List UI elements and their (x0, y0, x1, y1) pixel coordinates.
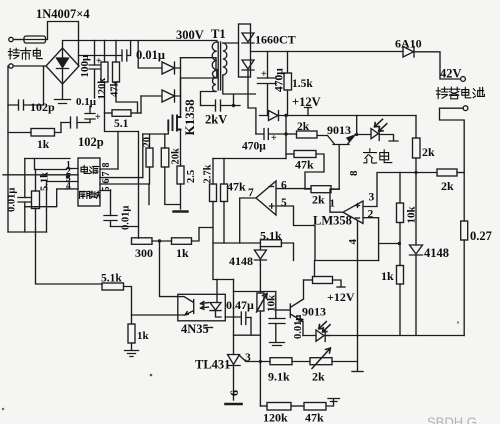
svg-text:4N35: 4N35 (181, 322, 209, 336)
svg-text:42V: 42V (440, 67, 462, 81)
wire 5.1k-h right to y243 (281, 243, 293, 261)
potentiometer 10k top lead (259, 265, 261, 293)
ground TL431 (226, 403, 242, 406)
ground below 2.5 (174, 210, 188, 212)
transistor 9013 #2 collector (290, 280, 303, 308)
wire 1k-ll to ground (131, 343, 133, 350)
LED charge indicator (371, 127, 379, 141)
speck 2 (457, 321, 459, 323)
wire 2.5 bottom to ground (180, 184, 182, 209)
label CJK char 电 (battery) (462, 87, 471, 97)
transistor 9013 #1 base bar (333, 144, 349, 146)
wire x138 down mid column (138, 132, 140, 239)
supply bar +12V #2 (337, 286, 345, 288)
potentiometer bottom lead (259, 311, 261, 362)
svg-text:470μ: 470μ (242, 141, 266, 153)
wire pin2 (363, 218, 379, 261)
svg-text:0.01μ: 0.01μ (293, 315, 304, 339)
svg-text:4: 4 (347, 239, 359, 245)
svg-text:47k: 47k (227, 180, 246, 194)
IC power module box (78, 158, 100, 206)
diode D-left-2 (141, 90, 181, 102)
potentiometer 2k arrow (312, 348, 331, 369)
ground below bridge (55, 84, 71, 104)
bridge rectifier 1N4007x4 diamond (46, 48, 79, 84)
junction dot emitter node (355, 133, 358, 136)
capacitor 0.01u lower plates (269, 319, 285, 324)
wire 47k-h tap (286, 153, 294, 155)
fuse F1 (24, 36, 46, 43)
potentiometer 2k bottom (310, 358, 332, 365)
diode 6A10 (403, 47, 414, 58)
wire 10k top (399, 173, 401, 204)
wire TL431 cathode bus y335 (234, 334, 261, 336)
wire left rail down (24, 159, 26, 233)
wire top rail 300V (63, 41, 213, 49)
resistor 1k mid (172, 238, 192, 245)
wire pin2 to divider node (379, 243, 400, 245)
svg-text:2: 2 (368, 209, 374, 221)
wire sense divider top y172.5 (457, 172, 464, 174)
wire pin4 (25, 189, 67, 207)
svg-text:8: 8 (348, 170, 360, 176)
svg-text:47k: 47k (110, 81, 121, 98)
wire 120k bottom to 5.1 line (104, 82, 106, 113)
resistor 20 vertical (149, 134, 151, 148)
svg-text:10k: 10k (266, 294, 278, 312)
svg-text:7: 7 (248, 187, 254, 199)
wire feedback winding bottom return (201, 92, 217, 106)
svg-text:20k: 20k (171, 148, 182, 165)
diode D3 on 12V rail (260, 111, 287, 121)
resistor 47k vertical top (115, 41, 117, 63)
wire battery - zigzag (440, 108, 465, 221)
svg-text:2kV: 2kV (205, 113, 227, 127)
resistor 2k vertical right (415, 116, 417, 139)
junction dot d3 (284, 114, 287, 117)
svg-text:+: + (95, 112, 101, 123)
speck 1 (150, 374, 153, 377)
junction dot 300/1k (158, 239, 161, 242)
resistor 5.1k horizontal (op1) (260, 240, 281, 247)
capacitor 100u lead (94, 41, 96, 66)
junction dot 2kV (232, 104, 235, 107)
svg-text:+: + (271, 133, 277, 144)
junction dot sense (414, 171, 417, 174)
potentiometer 10k (257, 293, 264, 311)
resistor 120k (260, 405, 267, 407)
ground symbol 1k-ll (125, 351, 139, 357)
resistor 0.27 vertical (461, 221, 468, 240)
svg-text:2k: 2k (441, 179, 454, 193)
resistor 20k vertical (164, 134, 166, 148)
svg-text:0.01μ: 0.01μ (121, 206, 132, 230)
speck 3 (2, 408, 4, 410)
svg-text:5: 5 (281, 197, 287, 209)
wire ground bus y335.5 (325, 335, 464, 337)
label CJK jie-xu-dian-chi (battery) char 接 (436, 87, 447, 98)
wire secondary top to 1660CT (223, 42, 239, 44)
wire 1k bottom to bus (399, 284, 401, 336)
svg-text:1k: 1k (37, 139, 50, 151)
terminal mains N (9, 64, 13, 68)
capacitor 0.1u electrolytic (85, 106, 95, 123)
svg-text:47k: 47k (305, 411, 324, 424)
svg-text:6A10: 6A10 (395, 37, 422, 51)
wire 0.01u to 300 resistor (111, 226, 139, 228)
label CJK char 蓄 (449, 87, 460, 99)
wire 5.1k-ll right jog (124, 287, 132, 316)
wire 102p to AC node (43, 66, 45, 105)
wire pin4 down (357, 221, 359, 372)
4N35 phototransistor (178, 297, 194, 315)
resistor 1.5k vertical (287, 52, 289, 74)
svg-text:3: 3 (245, 352, 251, 364)
label CJK module char 块 (94, 191, 100, 198)
label CJK module char 电 (81, 165, 89, 173)
opamp U1B triangle (343, 201, 363, 224)
wire TL431 top (233, 280, 235, 355)
resistor 10k vertical (397, 203, 404, 223)
svg-text:2.7k: 2.7k (203, 164, 214, 183)
svg-text:2k: 2k (312, 193, 325, 207)
LED #2 (316, 330, 325, 342)
junction dot fb chain (259, 360, 262, 363)
svg-text:2.5: 2.5 (186, 170, 197, 183)
terminal battery - (463, 106, 468, 111)
svg-text:1660CT: 1660CT (255, 33, 296, 47)
svg-text:5.1k: 5.1k (40, 172, 51, 191)
wire gate/drain rail (180, 58, 182, 114)
wire pin2 (3, 174, 67, 176)
resistor 120k vertical (104, 41, 106, 63)
svg-text:2k: 2k (422, 145, 435, 159)
svg-text:6: 6 (101, 179, 112, 184)
ground 0.01u lower (270, 343, 285, 346)
svg-text:4148: 4148 (229, 254, 253, 268)
svg-text:0.47μ: 0.47μ (226, 298, 254, 312)
opamp U1B minus (356, 217, 360, 219)
capacitor 2kV (201, 100, 221, 111)
wire primary top to rail (212, 41, 217, 43)
4N35 LED (210, 303, 221, 318)
wire K1358 source to 2.5 (180, 130, 182, 167)
left rail (7, 66, 9, 232)
label CJK char 电 (mains) (33, 48, 42, 58)
capacitor 470u #1 plates (258, 78, 277, 116)
svg-text:1N4007×4: 1N4007×4 (36, 7, 90, 21)
capacitor 0.47u (225, 312, 251, 325)
svg-text:300V: 300V (176, 28, 204, 42)
ground symbol pin4 (352, 371, 363, 373)
wire +12V rail (286, 115, 416, 117)
svg-text:0.1μ: 0.1μ (76, 96, 97, 108)
wire 1k right jog down (55, 123, 62, 133)
svg-text:1.5k: 1.5k (292, 78, 313, 90)
svg-text:102p: 102p (30, 100, 55, 114)
resistor 1k vertical lower-left (131, 315, 133, 324)
wire 5.1k bottom to bar (35, 209, 37, 233)
resistor 47k bottom (304, 403, 326, 411)
wire feedback chain drop (259, 362, 261, 407)
junction dot pin2 (66, 175, 69, 178)
wire pin8 riser (117, 132, 119, 170)
wire 300/1k node down to 4N35 collector (160, 241, 178, 297)
wire 20k bottom jog to ground (165, 167, 180, 205)
resistor 9.1k (270, 358, 292, 365)
capacitor 0.01u top (122, 41, 131, 62)
svg-text:0.01μ: 0.01μ (7, 188, 18, 212)
svg-text:SBDH G: SBDH G (427, 415, 477, 424)
diode 4148 #2 (410, 245, 423, 255)
wire bottom bar (8, 231, 47, 233)
svg-text:4148: 4148 (424, 246, 449, 260)
label CJK char 市 (21, 48, 31, 60)
svg-text:4: 4 (66, 181, 71, 191)
transistor 9013 #2 emitter (290, 314, 303, 336)
wire y158 right segment (213, 158, 286, 160)
capacitor 0.01u left plates (18, 198, 31, 203)
wire 10k bottom (399, 223, 401, 266)
svg-text:300: 300 (135, 246, 153, 260)
diode 4148 #1 (254, 247, 266, 265)
wire TL431 ref to 9.1k (246, 361, 270, 363)
wire emitter node to rail (355, 116, 371, 135)
wire 2k-v bottom to 4148#2 (415, 158, 417, 245)
wire mid horizontal y131.5 (105, 113, 139, 132)
wire 47k to ground hook (326, 399, 334, 406)
wire terminal to fuse (13, 39, 24, 41)
wire 6A10 to battery terminal (414, 52, 461, 79)
wire pin7 output (240, 198, 256, 243)
svg-text:+12V: +12V (327, 290, 355, 304)
wire node x286 down (285, 116, 287, 159)
transformer primary winding (212, 42, 217, 70)
svg-text:1k: 1k (137, 330, 150, 342)
module pin stubs right (100, 169, 149, 191)
svg-text:0.27: 0.27 (470, 229, 492, 243)
wire 0.47u right drop (250, 318, 252, 336)
svg-text:2k: 2k (312, 370, 325, 384)
wire pin6 (276, 188, 311, 190)
MOSFET K1358 (168, 116, 180, 131)
svg-text:K1358: K1358 (182, 99, 197, 136)
wire pin1 output loop (330, 189, 343, 212)
svg-text:5.1k: 5.1k (260, 229, 282, 243)
wire 47k-v top drop (223, 159, 225, 185)
resistor 1k vertical right (397, 266, 404, 285)
svg-text:6: 6 (227, 390, 241, 396)
wire LED cathode stub (379, 135, 398, 142)
wire op1 input bus y243 (213, 242, 260, 244)
opamp U1A minus (269, 186, 274, 188)
svg-text:2k: 2k (297, 121, 310, 133)
wire pin5 path (276, 206, 379, 261)
wire pin3 (47, 182, 67, 233)
wire 2kV right up to secondary return (221, 75, 256, 106)
wire pin6 drop to ground line (148, 184, 150, 205)
wire terminal N to bridge left vertex (13, 65, 46, 67)
resistor 2.7k vertical (210, 184, 217, 202)
svg-text:3: 3 (369, 192, 375, 204)
rectifier 1660CT box (239, 24, 251, 77)
ground hook bar (328, 399, 340, 402)
wire DC output rail y51.5 (251, 51, 404, 53)
label CJK char 电 (charging) (380, 150, 392, 163)
terminal mains L (9, 37, 13, 41)
wire 2k2 right riser (332, 145, 340, 189)
svg-text:0.01μ: 0.01μ (136, 48, 165, 62)
svg-text:8: 8 (101, 163, 112, 168)
resistor 1k horizontal left (8, 132, 31, 134)
wire 2.7k bottom / TL431 feed (213, 202, 234, 280)
svg-text:47k: 47k (295, 158, 314, 172)
svg-text:470μ: 470μ (274, 68, 286, 92)
LED #2 arrows (319, 322, 330, 332)
LED arrows (375, 119, 387, 131)
svg-text:120k: 120k (263, 411, 288, 424)
junction dot 470u2 (284, 132, 287, 135)
transistor 9013 #2 base bar (289, 304, 291, 318)
bridge internal diode (57, 50, 69, 82)
wire 20 bottom (149, 167, 151, 184)
capacitor 102p #2 (61, 117, 90, 128)
svg-text:9013: 9013 (327, 123, 351, 137)
wire 47k-v bottom (223, 202, 225, 244)
diode D-left-1 (138, 41, 180, 75)
wire base to transistor (276, 309, 290, 311)
svg-text:9.1k: 9.1k (268, 370, 290, 384)
resistor 300 (132, 238, 153, 245)
svg-text:LM358: LM358 (313, 214, 352, 228)
svg-text:1k: 1k (381, 269, 394, 283)
diode 1660CT lower (242, 60, 254, 94)
transistor 9013 #1 emitter (347, 135, 355, 144)
resistor 2k #1 (base) (286, 133, 297, 135)
opamp U1B plus (356, 204, 360, 208)
transformer T1 core (218, 42, 220, 90)
polarity dash 0.47u (205, 327, 213, 329)
wire TL431 anode down (233, 366, 235, 401)
4N35 coupling arrows (201, 302, 209, 310)
wire 0.27 bottom to bus (463, 240, 465, 336)
svg-text:5: 5 (101, 187, 112, 192)
svg-text:100μ: 100μ (79, 54, 91, 78)
TL431 symbol (227, 355, 246, 366)
label CJK chong-dian (charging) char 充 (364, 149, 377, 163)
svg-text:5.1k: 5.1k (101, 273, 122, 285)
wire 2.7k top drop (212, 159, 214, 185)
wire 4N35 input line (132, 314, 178, 316)
supply stub +12V (305, 108, 312, 116)
svg-text:1: 1 (330, 198, 336, 210)
opamp U1A triangle (256, 181, 276, 215)
resistor 5.1k horizontal lower-left (102, 283, 124, 290)
wire rail top to feedback winding (181, 58, 217, 69)
label CJK module char 膜 (87, 191, 93, 198)
resistor 2.5 vertical (177, 166, 184, 184)
svg-text:TL431: TL431 (195, 358, 230, 372)
capacitor 0.01u module plates (104, 216, 117, 227)
diode 1660CT upper (242, 33, 254, 43)
transformer secondary winding (223, 43, 227, 75)
svg-text:10k: 10k (406, 206, 418, 224)
resistor 47k horizontal (294, 151, 316, 158)
wire 4N35 LED top feed (216, 280, 218, 303)
capacitor 102p #1 (8, 100, 44, 110)
resistor 47k vertical mid (221, 184, 228, 202)
transistor 9013 #1 collector (317, 136, 334, 144)
wire 5.1 to diode2 line (140, 96, 142, 113)
module pin stubs left (67, 169, 79, 189)
resistor 2k horizontal sense (437, 169, 457, 176)
optocoupler 4N35 box (178, 294, 226, 321)
wire base feed 9013#2 (234, 292, 276, 311)
svg-text:7: 7 (101, 172, 112, 177)
wire pin1 branch (35, 159, 67, 170)
wire pin3 (363, 173, 437, 207)
wire pin5 to 0.01u (110, 190, 112, 216)
capacitor 100u plates (89, 65, 100, 98)
wire pin2 fb horizontal (314, 261, 316, 277)
svg-text:9013: 9013 (302, 305, 326, 319)
wire K1358 drain up (181, 70, 217, 117)
svg-text:+12V: +12V (292, 95, 321, 109)
wire pin7 riser to gate bus (142, 134, 144, 178)
wire LED2 anode (303, 335, 330, 337)
label CJK module char 源 (90, 166, 99, 173)
wire 2k-pot to pin4 line (332, 361, 358, 363)
capacitor 470u #1 leads (267, 52, 269, 79)
resistor 5.1 horizontal (105, 112, 113, 114)
svg-text:102p: 102p (78, 135, 104, 149)
svg-text:20: 20 (142, 137, 153, 148)
resistor 2k collector load (304, 279, 313, 281)
svg-text:6: 6 (281, 180, 287, 192)
svg-text:+: + (261, 69, 267, 80)
node X-cap tap (79, 55, 123, 57)
label CJK module char 厚 (80, 191, 86, 198)
wire 120k-47k (291, 405, 304, 407)
wire fuse to bridge right vertex (over label) (46, 22, 79, 67)
svg-text:120k: 120k (97, 78, 108, 100)
wire left bus y158 (25, 158, 70, 160)
svg-text:T1: T1 (211, 27, 226, 41)
svg-text:+: + (96, 56, 102, 67)
junction dot divider (398, 242, 401, 245)
svg-text:5.1: 5.1 (114, 118, 129, 130)
wire 0.01u lower leads (275, 310, 277, 342)
wire 47k bottom jog (116, 82, 138, 113)
opamp U1A plus (270, 204, 275, 208)
svg-text:1k: 1k (176, 246, 189, 260)
resistor 2k #2 (op1 fb) (305, 188, 311, 190)
capacitor 470u #2 (256, 129, 286, 140)
label CJK jie-shi-dian (mains) char 接 (8, 48, 19, 59)
wire 470u#2 feed (248, 94, 256, 134)
wire gate bus y134 (143, 130, 169, 134)
label CJK char 池 (473, 87, 485, 97)
wire 5.1k net down to lower-left (36, 232, 103, 284)
wire 9.1k to pot2k (292, 361, 310, 363)
resistor 5.1k vertical left (35, 170, 37, 192)
wire 47k loop to 2k#2 (305, 154, 324, 189)
potentiometer 10k arrow (257, 294, 268, 313)
terminal battery + (461, 77, 466, 82)
wire 4148#2 to bus (415, 255, 417, 336)
transformer feedback winding (213, 71, 217, 92)
